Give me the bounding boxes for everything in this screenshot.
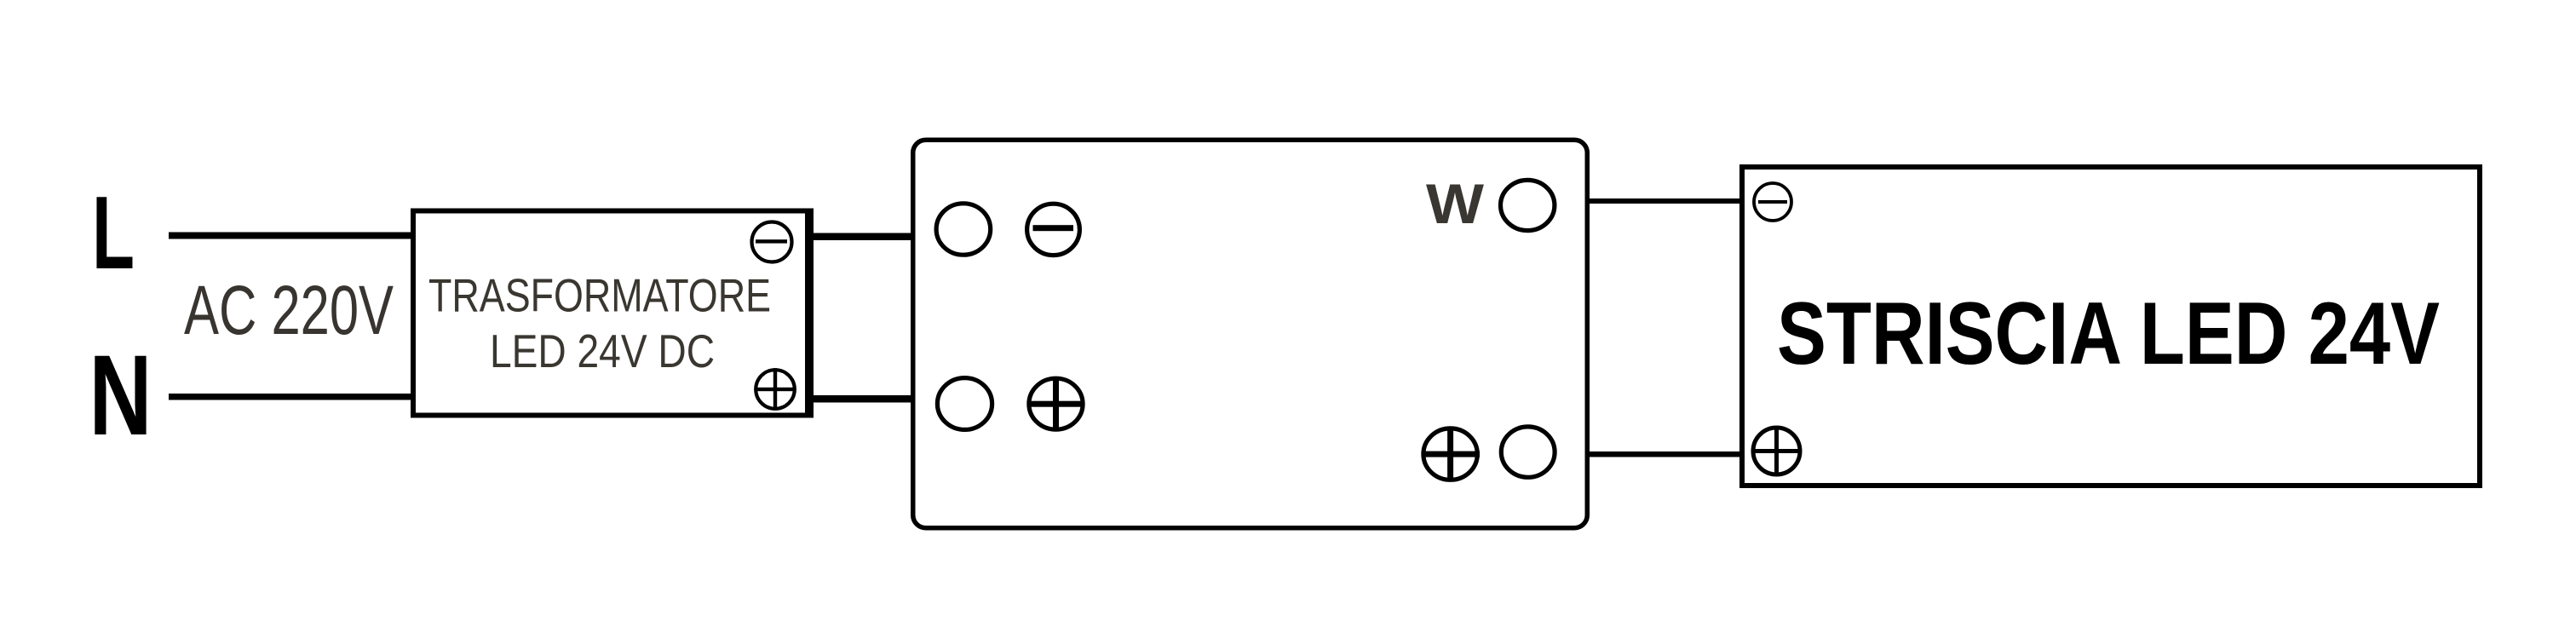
- wire transformer to controller (top): [809, 233, 915, 241]
- svg-text:L: L: [92, 175, 135, 290]
- transformer plus terminal: [755, 368, 796, 411]
- transformer box: [413, 211, 810, 416]
- svg-text:STRISCIA LED 24V: STRISCIA LED 24V: [1777, 285, 2440, 383]
- controller bottom-right plus terminal: [1422, 427, 1481, 482]
- svg-text:LED 24V DC: LED 24V DC: [490, 325, 715, 377]
- controller input terminal (top plain): [936, 204, 991, 255]
- W output terminal circle: [1501, 180, 1555, 230]
- svg-text:W: W: [1426, 173, 1484, 235]
- controller input terminal (bottom plain): [937, 378, 992, 430]
- controller bottom-right output circle: [1501, 427, 1555, 477]
- controller plus terminal: [1027, 377, 1085, 432]
- wire transformer to controller (bottom): [809, 395, 915, 403]
- LED strip minus terminal: [1754, 183, 1791, 221]
- controller minus terminal: [1027, 204, 1080, 255]
- transformer minus terminal: [752, 222, 792, 262]
- svg-text:N: N: [89, 332, 152, 459]
- LED strip box: [1742, 167, 2480, 486]
- wire N to transformer: [169, 394, 413, 400]
- wire controller to LED strip (top): [1586, 198, 1743, 204]
- svg-text:TRASFORMATORE: TRASFORMATORE: [428, 269, 771, 322]
- transformer box thick right edge: [805, 209, 814, 418]
- wire controller to LED strip (bottom): [1586, 451, 1743, 457]
- controller box: [913, 140, 1588, 528]
- LED strip plus terminal: [1753, 428, 1801, 475]
- wire L to transformer: [169, 233, 413, 239]
- svg-text:AC 220V: AC 220V: [184, 272, 394, 349]
